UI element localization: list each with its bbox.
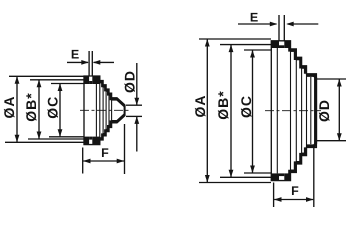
svg-text:ØB*: ØB*	[215, 90, 231, 119]
svg-text:ØC: ØC	[238, 95, 254, 118]
svg-text:ØA: ØA	[1, 96, 17, 119]
svg-text:ØD: ØD	[316, 99, 332, 122]
svg-text:E: E	[250, 11, 258, 25]
svg-text:E: E	[71, 48, 79, 62]
svg-text:F: F	[101, 146, 109, 160]
svg-text:F: F	[291, 184, 299, 198]
svg-text:ØC: ØC	[45, 96, 61, 119]
svg-text:ØD: ØD	[122, 70, 138, 93]
svg-text:ØB*: ØB*	[23, 92, 39, 121]
svg-text:ØA: ØA	[192, 95, 208, 118]
